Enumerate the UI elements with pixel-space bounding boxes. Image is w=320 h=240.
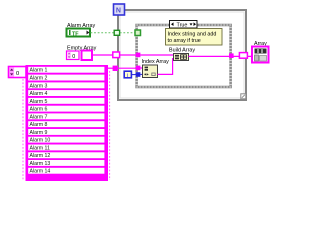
wire: Index Array output up to Build Array	[158, 59, 175, 75]
svg-text:Alarm 13: Alarm 13	[30, 161, 51, 167]
loop tunnel (solid pink)	[113, 66, 118, 71]
svg-text:Build Array: Build Array	[169, 48, 195, 54]
Array indicator terminal	[252, 47, 269, 63]
case right tunnel (solid pink)	[229, 53, 234, 58]
svg-text:Index string and add: Index string and add	[168, 31, 217, 37]
svg-text:Alarm 14: Alarm 14	[30, 169, 51, 175]
svg-text:Alarm 4: Alarm 4	[30, 91, 48, 97]
svg-text:Alarm 7: Alarm 7	[30, 114, 48, 120]
wire: tunnel to case tunnel	[120, 54, 136, 56]
svg-text:Alarm 6: Alarm 6	[30, 107, 48, 113]
case selector terminal	[135, 30, 141, 36]
i terminal	[124, 71, 131, 79]
wire: i terminal to case tunnel (blue)	[132, 74, 136, 76]
svg-text:0: 0	[72, 54, 75, 60]
case left tunnel bottom (solid blue)	[136, 72, 141, 77]
svg-text:Index Array: Index Array	[142, 59, 170, 65]
svg-text:Alarm 8: Alarm 8	[30, 122, 48, 128]
loop right tunnel (hollow pink)	[239, 53, 247, 59]
case selector label	[170, 21, 198, 29]
wire: case tunnel to Index Array input	[140, 67, 143, 69]
Empty Array constant: index box	[67, 51, 80, 60]
wire: blue tunnel to Index Array	[140, 73, 143, 75]
big array constant: index box	[9, 67, 27, 78]
array elements Alarm 1..14	[28, 66, 105, 174]
svg-text:N: N	[116, 7, 121, 14]
Empty Array constant: empty element	[82, 51, 93, 61]
Index Array node	[143, 65, 158, 78]
svg-text:Alarm 9: Alarm 9	[30, 130, 48, 136]
svg-text:Alarm 10: Alarm 10	[30, 138, 51, 144]
svg-text:to array if true: to array if true	[168, 38, 201, 44]
array selection dash left	[22, 79, 24, 180]
svg-text:Alarm 2: Alarm 2	[30, 76, 48, 82]
svg-text:Alarm 5: Alarm 5	[30, 99, 48, 105]
wire: tunnel to case tunnel	[118, 67, 136, 69]
array selection dash right	[109, 71, 111, 180]
svg-text:True: True	[177, 22, 188, 28]
Alarm Array boolean-array terminal	[67, 29, 91, 38]
case structure border	[137, 25, 231, 87]
svg-text:Alarm 3: Alarm 3	[30, 83, 48, 89]
svg-text:0: 0	[16, 71, 19, 77]
wire: Build Array output to Array indicator	[189, 55, 252, 57]
big array constant: shell	[26, 65, 109, 181]
wire: Empty Array to loop tunnel (pink)	[92, 54, 113, 56]
case left tunnel top (solid pink)	[136, 53, 141, 58]
case left tunnel middle (solid pink)	[136, 66, 141, 71]
loop corner glyph	[241, 94, 246, 99]
svg-text:i: i	[127, 73, 128, 79]
auto-index tunnel (green) on loop border	[114, 30, 119, 35]
loop left tunnel (hollow pink)	[113, 52, 120, 58]
svg-text:Alarm 11: Alarm 11	[30, 145, 50, 151]
N terminal	[114, 4, 125, 15]
comment box	[166, 29, 223, 46]
svg-text:Alarm 1: Alarm 1	[30, 68, 48, 74]
wire: tunnel to case selector (green dashed)	[120, 32, 135, 34]
wire: Alarm Array to loop tunnel (green dashed)	[91, 32, 115, 34]
for loop border	[118, 10, 246, 100]
svg-text:TF: TF	[72, 31, 79, 37]
wire: case tunnel to Build Array input	[140, 54, 174, 56]
Build Array node	[174, 54, 189, 61]
wire: big array to loop tunnel	[108, 67, 113, 69]
svg-text:Alarm 12: Alarm 12	[30, 153, 51, 159]
